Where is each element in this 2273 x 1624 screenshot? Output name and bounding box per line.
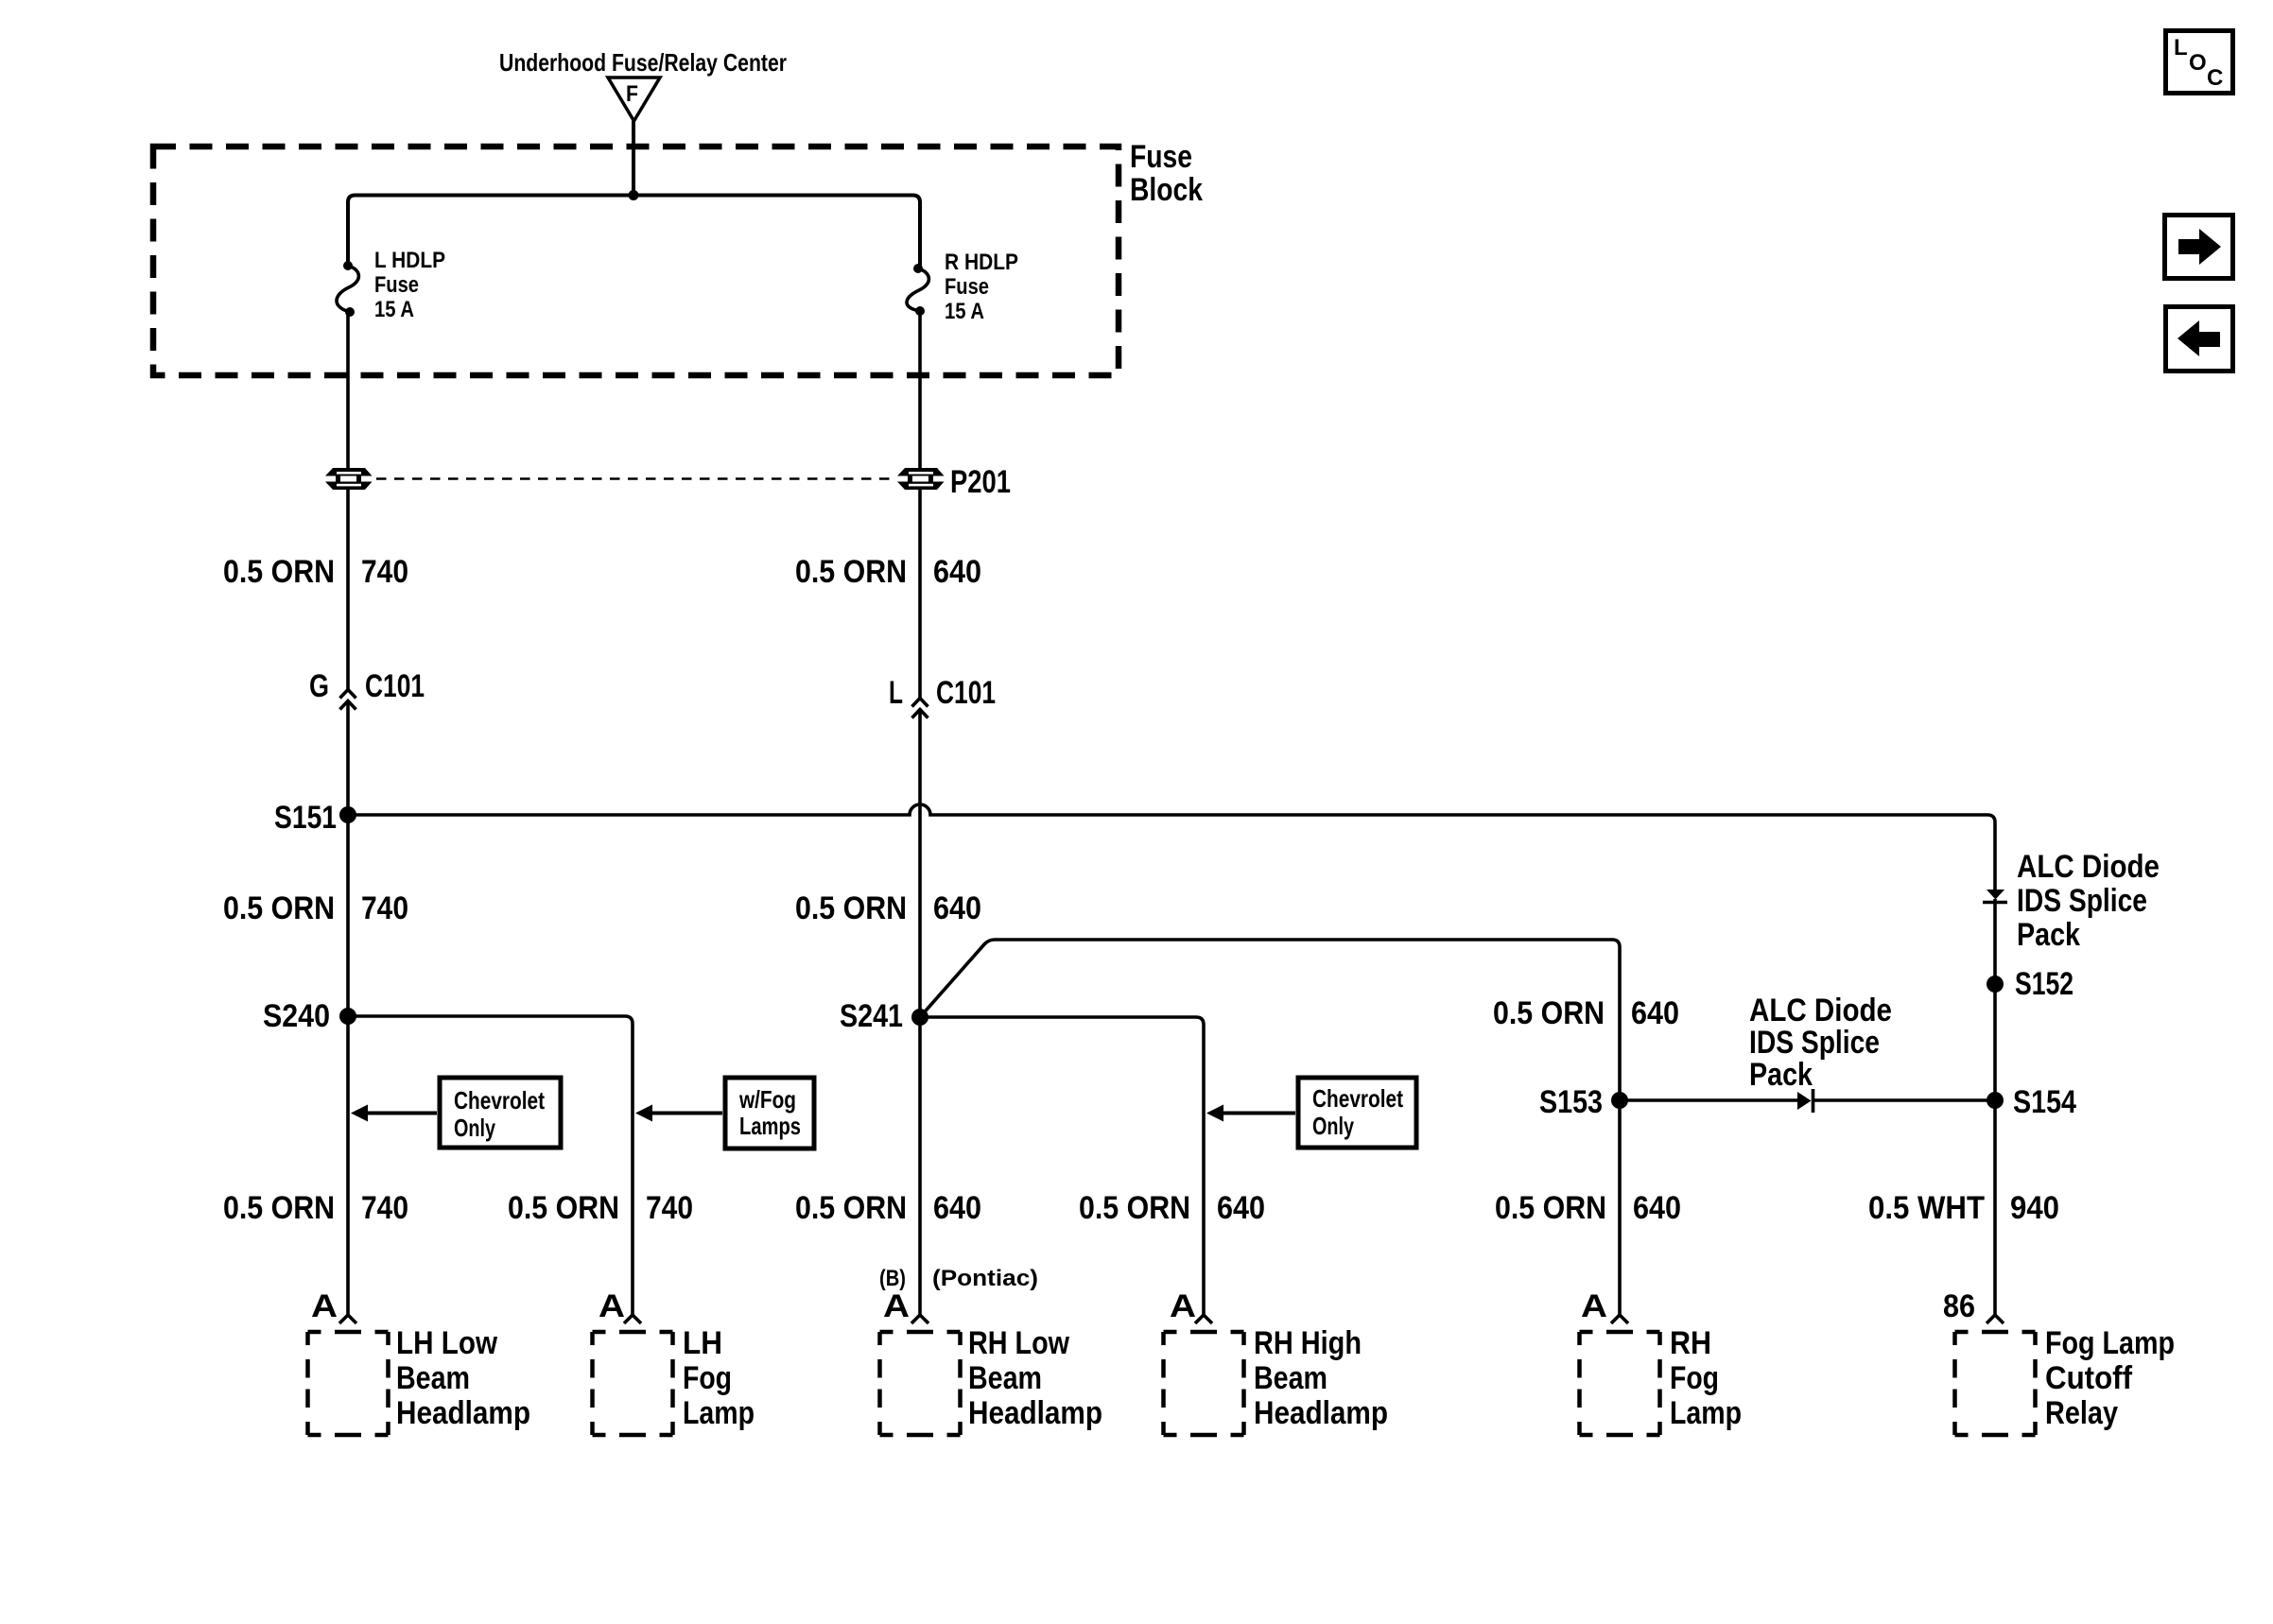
svg-text:Fuse: Fuse	[945, 274, 989, 300]
svg-text:740: 740	[361, 554, 408, 590]
wire label 0.5 ORN 640 row2 right	[795, 890, 981, 926]
svg-text:740: 740	[361, 1190, 408, 1226]
svg-text:S154: S154	[2013, 1084, 2076, 1120]
wire S154 to fog lamp cutoff relay	[1993, 1100, 1997, 1315]
svg-text:0.5 ORN: 0.5 ORN	[795, 1190, 907, 1226]
svg-text:S240: S240	[263, 998, 330, 1034]
wire right fuse to P201	[918, 311, 922, 469]
svg-text:Underhood Fuse/Relay Center: Underhood Fuse/Relay Center	[499, 48, 787, 77]
svg-text:S151: S151	[274, 800, 337, 836]
svg-text:Only: Only	[1312, 1112, 1354, 1140]
svg-text:Beam: Beam	[1254, 1360, 1327, 1396]
svg-text:Headlamp: Headlamp	[968, 1395, 1102, 1431]
fuse F2 R HDLP 15A	[907, 250, 1018, 324]
connector chevron col5	[1611, 1315, 1628, 1323]
svg-text:Cutoff: Cutoff	[2045, 1360, 2133, 1396]
svg-text:0.5 WHT: 0.5 WHT	[1868, 1190, 1985, 1226]
svg-text:IDS Splice: IDS Splice	[1749, 1025, 1880, 1061]
svg-text:640: 640	[1631, 995, 1679, 1031]
svg-text:0.5 ORN: 0.5 ORN	[795, 890, 907, 926]
svg-text:ALC Diode: ALC Diode	[1749, 993, 1892, 1028]
svg-text:RH Low: RH Low	[968, 1325, 1069, 1361]
svg-text:Lamp: Lamp	[683, 1395, 755, 1431]
svg-text:15 A: 15 A	[945, 299, 984, 324]
fuse F1 L HDLP 15A	[337, 248, 445, 322]
nav icon left arrow box	[2166, 307, 2233, 371]
wire S240 to LH low beam	[346, 1016, 350, 1315]
svg-text:640: 640	[933, 1190, 981, 1226]
svg-text:ALC Diode: ALC Diode	[2017, 849, 2160, 885]
diode ALC (horizontal, splice pack)	[1797, 1089, 1813, 1113]
svg-text:Pack: Pack	[1749, 1057, 1813, 1093]
svg-text:Lamp: Lamp	[1670, 1395, 1742, 1431]
svg-text:A: A	[311, 1288, 338, 1324]
junction dot on bus	[629, 190, 639, 200]
svg-text:S153: S153	[1539, 1084, 1603, 1120]
node ALC Diode IDS Splice Pack label (right)	[2017, 849, 2160, 953]
svg-text:86: 86	[1943, 1288, 1975, 1324]
component box LH Low Beam Headlamp	[308, 1325, 531, 1435]
option box Chevrolet Only #2	[1206, 1078, 1416, 1148]
svg-text:LH Low: LH Low	[396, 1325, 497, 1361]
svg-text:A: A	[1581, 1288, 1607, 1324]
component box Fog Lamp Cutoff Relay	[1955, 1325, 2176, 1435]
svg-text:Fog: Fog	[683, 1360, 732, 1396]
svg-text:(Pontiac): (Pontiac)	[932, 1266, 1038, 1291]
connector chevron col6	[1987, 1315, 2004, 1323]
wire S153 to RH fog lamp	[1618, 1100, 1622, 1315]
splice S240	[263, 998, 356, 1034]
svg-text:0.5 ORN: 0.5 ORN	[1493, 995, 1605, 1031]
svg-text:IDS Splice: IDS Splice	[2017, 883, 2147, 919]
svg-text:Fog Lamp: Fog Lamp	[2045, 1325, 2175, 1361]
svg-text:A: A	[1170, 1288, 1196, 1324]
svg-text:0.5 ORN: 0.5 ORN	[223, 1190, 335, 1226]
svg-text:O: O	[2189, 50, 2207, 76]
svg-text:0.5 ORN: 0.5 ORN	[223, 890, 335, 926]
svg-text:640: 640	[933, 554, 981, 590]
svg-text:0.5 ORN: 0.5 ORN	[795, 554, 907, 590]
splice S152	[1987, 966, 2073, 1002]
svg-text:C101: C101	[365, 668, 425, 704]
wire S151 to S240	[346, 815, 350, 1016]
wire diode to S154	[1993, 899, 1997, 1100]
nav icon LOC box	[2166, 31, 2233, 94]
connector C101 left (pin G)	[309, 668, 425, 710]
svg-text:Only: Only	[454, 1114, 495, 1142]
connector chevron col2	[624, 1315, 641, 1323]
svg-text:0.5 ORN: 0.5 ORN	[223, 554, 335, 590]
wire label 0.5 ORN 740 row1 left	[223, 554, 408, 590]
svg-text:C: C	[2207, 65, 2223, 91]
svg-text:Fuse: Fuse	[1130, 139, 1192, 175]
svg-text:0.5 ORN: 0.5 ORN	[1495, 1190, 1606, 1226]
svg-text:L: L	[2174, 35, 2188, 60]
wire bus inside fuse block	[348, 196, 920, 269]
svg-text:640: 640	[1633, 1190, 1681, 1226]
wire left fuse to P201	[346, 312, 350, 469]
svg-text:740: 740	[646, 1190, 693, 1226]
svg-text:G: G	[309, 668, 329, 704]
svg-text:L HDLP: L HDLP	[374, 248, 445, 273]
splice S151	[274, 800, 356, 836]
svg-text:RH High: RH High	[1254, 1325, 1362, 1361]
wire P201 to C101 left	[346, 490, 350, 689]
svg-text:Headlamp: Headlamp	[1254, 1395, 1388, 1431]
svg-text:R HDLP: R HDLP	[945, 250, 1018, 275]
wire S241 branch to RH high beam column	[920, 1017, 1204, 1315]
connector chevron col1	[339, 1315, 356, 1323]
option box w/Fog Lamps	[635, 1078, 814, 1149]
svg-text:Block: Block	[1130, 172, 1203, 208]
svg-text:740: 740	[361, 890, 408, 926]
svg-text:15 A: 15 A	[374, 297, 414, 322]
diode ALC (vertical, at splice pack)	[1983, 890, 2007, 903]
wire label 0.5 WHT 940 row3 col6	[1868, 1190, 2059, 1226]
svg-text:Relay: Relay	[2045, 1395, 2118, 1431]
node Fuse Block label	[1130, 139, 1203, 208]
svg-text:C101: C101	[936, 675, 996, 711]
splice S154	[1987, 1084, 2076, 1120]
svg-text:F: F	[626, 81, 638, 107]
component box RH Fog Lamp	[1580, 1325, 1743, 1435]
wire label 0.5 ORN 740 row3 col1	[223, 1190, 408, 1226]
wire label 0.5 ORN 640 row3 col4	[1079, 1190, 1265, 1226]
svg-text:940: 940	[2010, 1190, 2059, 1226]
svg-text:640: 640	[1217, 1190, 1265, 1226]
wire S151 trunk with hop, to ALC diode column	[348, 804, 1995, 890]
splice S153	[1539, 1084, 1628, 1120]
power symbol F triangle	[608, 78, 660, 121]
splice S241	[840, 998, 928, 1034]
wire label 0.5 ORN 640 row1 right	[795, 554, 981, 590]
node (B) (Pontiac) labels	[879, 1266, 1038, 1291]
svg-text:(B): (B)	[879, 1266, 906, 1291]
svg-text:Headlamp: Headlamp	[396, 1395, 530, 1431]
connector P201 right grommet	[897, 468, 945, 490]
svg-text:Fog: Fog	[1670, 1360, 1719, 1396]
svg-text:P201: P201	[950, 464, 1011, 500]
dashed wire between P201 halves	[376, 477, 893, 480]
svg-text:Beam: Beam	[968, 1360, 1042, 1396]
wire S241 to RH low beam	[918, 1017, 922, 1315]
svg-text:L: L	[889, 675, 903, 711]
component box RH High Beam Headlamp	[1164, 1325, 1389, 1435]
svg-text:Pack: Pack	[2017, 917, 2080, 953]
svg-text:0.5 ORN: 0.5 ORN	[1079, 1190, 1190, 1226]
svg-text:0.5 ORN: 0.5 ORN	[508, 1190, 619, 1226]
svg-text:RH: RH	[1670, 1325, 1711, 1361]
fuse block dashed border	[153, 147, 1119, 375]
nav icon right arrow box	[2165, 216, 2233, 279]
wire C101 to S151	[346, 701, 350, 816]
wire C101 down through S241 to RH low beam	[918, 710, 922, 1018]
svg-text:Lamps: Lamps	[739, 1112, 801, 1140]
option box Chevrolet Only #1	[351, 1078, 561, 1148]
component box LH Fog Lamp	[593, 1325, 755, 1435]
wire label 0.5 ORN 640 row3 col5	[1495, 1190, 1681, 1226]
wire label 0.5 ORN 740 row3 col2	[508, 1190, 693, 1226]
wire P201 to C101 right	[918, 490, 922, 698]
svg-text:S152: S152	[2015, 966, 2073, 1002]
svg-text:w/Fog: w/Fog	[738, 1085, 796, 1114]
wire label 0.5 ORN 640 row3 col3	[795, 1190, 981, 1226]
wire S240 branch to LH fog lamp column	[348, 1016, 633, 1315]
node ALC Diode IDS Splice Pack label (left)	[1749, 993, 1892, 1093]
svg-text:A: A	[599, 1288, 625, 1324]
wire label 0.5 ORN 740 row2 left	[223, 890, 408, 926]
wire label 0.5 ORN 640 at S153 feed	[1493, 995, 1679, 1031]
svg-text:640: 640	[933, 890, 981, 926]
svg-text:Chevrolet: Chevrolet	[1312, 1084, 1403, 1113]
svg-text:Chevrolet: Chevrolet	[454, 1086, 545, 1114]
svg-text:Beam: Beam	[396, 1360, 470, 1396]
svg-text:S241: S241	[840, 998, 903, 1034]
wire S241 diagonal to fog lamp feed	[920, 940, 1620, 1100]
svg-text:A: A	[883, 1288, 910, 1324]
wire from F triangle to bus	[632, 121, 635, 196]
wire diode to S154	[1813, 1098, 1995, 1102]
connector P201 left grommet	[325, 468, 373, 490]
connector C101 right (pin L)	[889, 675, 996, 718]
component box RH Low Beam Headlamp	[880, 1325, 1103, 1435]
connector chevron col3	[911, 1315, 928, 1323]
wire S153 to diode	[1620, 1098, 1797, 1102]
svg-text:LH: LH	[683, 1325, 722, 1361]
connector chevron col4	[1195, 1315, 1212, 1323]
svg-text:Fuse: Fuse	[374, 272, 419, 298]
